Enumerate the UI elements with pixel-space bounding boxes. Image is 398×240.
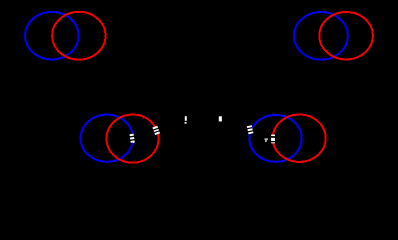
circle B-red xyxy=(319,12,373,59)
circle C-blue xyxy=(81,115,133,162)
circle C-red xyxy=(107,115,159,163)
circle B-blue xyxy=(294,12,348,60)
hash mark P3 (on hidden arrow, left) xyxy=(185,116,187,124)
circle A-red xyxy=(52,12,105,60)
patchA corner nib xyxy=(133,142,134,143)
hash mark patchE on D-red left edge xyxy=(271,135,275,144)
hash mark P4 (on hidden arrow, right) xyxy=(219,116,222,121)
circle D-red xyxy=(273,115,326,162)
circle D-blue xyxy=(249,115,301,162)
hash mark speckD (inside D-blue) xyxy=(265,139,268,142)
circle A-blue xyxy=(25,12,79,60)
hash mark patchC on D-blue left edge xyxy=(246,125,253,134)
hash mark patchA on C-blue right edge xyxy=(129,134,135,143)
hash mark patchB on C-red right edge xyxy=(152,125,161,135)
